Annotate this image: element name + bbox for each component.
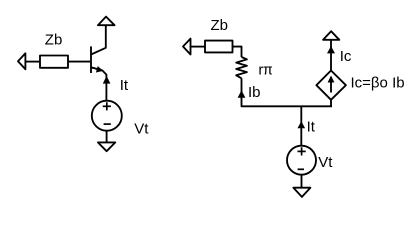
svg-text:Ic=βo Ib: Ic=βo Ib xyxy=(351,75,405,92)
svg-text:Ib: Ib xyxy=(248,84,261,101)
svg-text:Vt: Vt xyxy=(134,121,149,138)
svg-text:rπ: rπ xyxy=(258,61,272,79)
svg-text:Zb: Zb xyxy=(45,32,63,49)
svg-text:It: It xyxy=(307,118,316,135)
svg-text:Ic: Ic xyxy=(340,48,352,65)
svg-text:Vt: Vt xyxy=(318,154,333,171)
svg-text:It: It xyxy=(120,77,129,94)
svg-text:Zb: Zb xyxy=(211,17,229,34)
